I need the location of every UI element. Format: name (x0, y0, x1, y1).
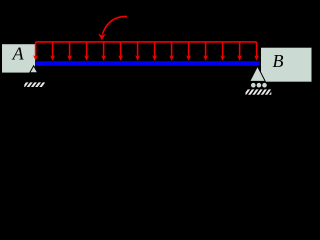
curved pointer arrow (98, 16, 127, 40)
distributed load top line (36, 41, 257, 43)
left ground hatch (23, 82, 44, 88)
roller 3 (262, 83, 267, 88)
beam (35, 61, 260, 66)
roller 2 (257, 83, 262, 88)
load arrow stems (36, 42, 257, 57)
right ground hatch (245, 89, 275, 96)
svg-text:B: B (273, 51, 284, 71)
load arrowheads (33, 55, 259, 61)
svg-text:A: A (12, 44, 25, 64)
left support pin triangle (30, 66, 38, 73)
roller 1 (251, 83, 256, 88)
wall block B (261, 48, 312, 82)
wall block A (2, 44, 35, 72)
right support roller triangle (250, 66, 266, 81)
